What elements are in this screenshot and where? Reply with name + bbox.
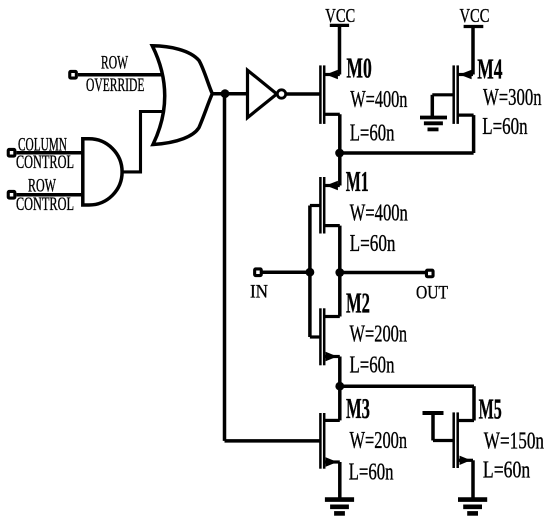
wire bbox=[471, 27, 475, 75]
svg-text:M0: M0 bbox=[346, 54, 371, 85]
wire bbox=[338, 226, 342, 317]
input port ROW CONTROL bbox=[8, 191, 15, 198]
wire bbox=[122, 112, 166, 172]
svg-text:ROW: ROW bbox=[101, 53, 128, 74]
VCC bar (left) bbox=[330, 24, 349, 27]
svg-text:L=60n: L=60n bbox=[482, 113, 528, 140]
junction dot bbox=[335, 268, 344, 277]
svg-text:M4: M4 bbox=[477, 54, 502, 85]
wire bbox=[338, 25, 342, 74]
svg-text:M5: M5 bbox=[479, 394, 502, 425]
wire bbox=[223, 94, 227, 441]
inverter U1 bbox=[248, 70, 277, 117]
wire bbox=[78, 73, 164, 77]
wire bbox=[340, 151, 474, 155]
wire bbox=[471, 460, 475, 499]
transistor M5 bbox=[433, 412, 474, 468]
input port COLUMN CONTROL bbox=[8, 149, 15, 156]
wire bbox=[338, 357, 342, 387]
svg-text:M1: M1 bbox=[346, 167, 369, 198]
junction dot bbox=[221, 89, 230, 98]
svg-text:W=400n: W=400n bbox=[350, 201, 408, 227]
transistor M0 bbox=[320, 65, 339, 124]
VCC stub (M5 gate) bbox=[423, 411, 444, 415]
AND gate U2 bbox=[83, 139, 122, 205]
svg-text:VCC: VCC bbox=[460, 3, 490, 26]
wire bbox=[340, 384, 474, 388]
input port ROW OVERRIDE bbox=[70, 71, 77, 78]
wire bbox=[308, 206, 312, 338]
ground (M5) bbox=[458, 500, 487, 514]
wire bbox=[17, 151, 85, 155]
input port IN bbox=[255, 269, 262, 276]
OR gate U3 bbox=[152, 46, 212, 145]
junction dot bbox=[335, 382, 344, 391]
ground (M4 gate) bbox=[420, 118, 447, 130]
wire bbox=[338, 386, 342, 420]
svg-text:VCC: VCC bbox=[325, 4, 355, 27]
wire bbox=[431, 413, 435, 441]
svg-text:OUT: OUT bbox=[416, 281, 448, 303]
svg-text:IN: IN bbox=[250, 280, 268, 301]
wire bbox=[338, 462, 342, 499]
transistor M3 bbox=[320, 413, 339, 469]
svg-text:M2: M2 bbox=[346, 287, 370, 319]
svg-text:M3: M3 bbox=[346, 392, 370, 424]
svg-text:W=400n: W=400n bbox=[350, 87, 407, 113]
transistor M4 bbox=[432, 65, 473, 124]
wire bbox=[340, 271, 426, 275]
wire bbox=[225, 439, 321, 443]
wire bbox=[338, 114, 342, 185]
wire bbox=[17, 193, 85, 197]
svg-text:CONTROL: CONTROL bbox=[16, 194, 74, 214]
junction dot bbox=[335, 149, 344, 158]
wire bbox=[431, 95, 435, 116]
ground (M3) bbox=[325, 500, 354, 514]
wire bbox=[263, 270, 310, 274]
svg-text:L=60n: L=60n bbox=[350, 121, 395, 147]
svg-text:L=60n: L=60n bbox=[350, 353, 396, 378]
svg-text:CONTROL: CONTROL bbox=[16, 152, 74, 172]
wire bbox=[287, 92, 321, 96]
svg-text:L=60n: L=60n bbox=[349, 460, 395, 485]
wire bbox=[472, 115, 476, 153]
wire bbox=[212, 92, 246, 96]
output port OUT bbox=[426, 270, 433, 277]
svg-text:OVERRIDE: OVERRIDE bbox=[86, 75, 144, 96]
svg-text:W=300n: W=300n bbox=[483, 85, 542, 111]
VCC bar (right) bbox=[464, 25, 484, 28]
svg-text:L=60n: L=60n bbox=[350, 229, 396, 257]
wire bbox=[472, 386, 476, 420]
svg-text:W=200n: W=200n bbox=[350, 428, 408, 454]
transistor M2 bbox=[310, 308, 340, 365]
svg-text:L=60n: L=60n bbox=[483, 456, 531, 483]
transistor M1 bbox=[310, 177, 340, 234]
junction dot bbox=[306, 268, 315, 277]
svg-text:W=150n: W=150n bbox=[484, 426, 545, 454]
svg-text:W=200n: W=200n bbox=[350, 321, 408, 347]
